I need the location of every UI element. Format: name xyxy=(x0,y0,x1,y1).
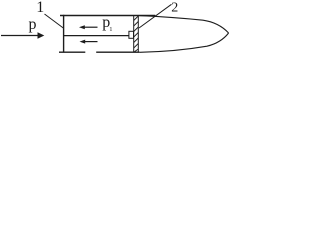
svg-text:1: 1 xyxy=(109,26,112,33)
svg-text:p: p xyxy=(29,16,37,33)
svg-text:1: 1 xyxy=(36,0,44,16)
svg-text:2: 2 xyxy=(171,1,178,16)
